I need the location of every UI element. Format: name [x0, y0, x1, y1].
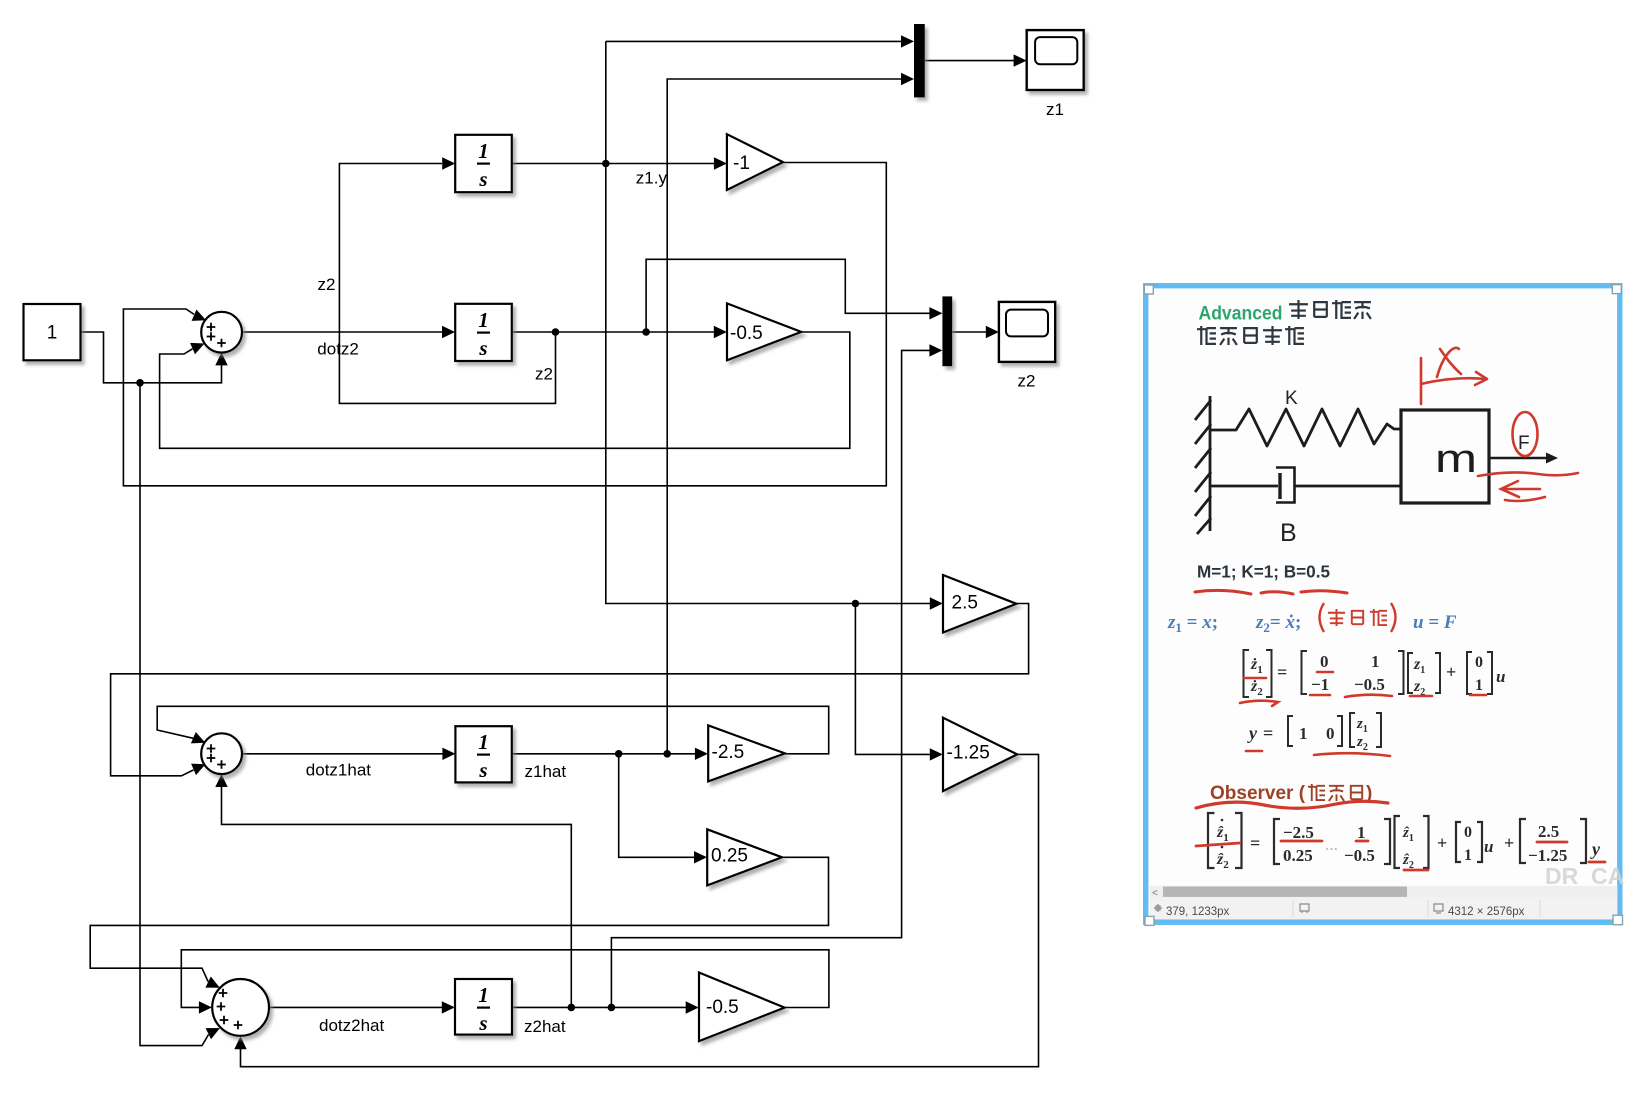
wire gain 2.5 out to sum2 lower-left	[111, 604, 1029, 776]
arrow into sum1 lower-left	[190, 338, 207, 354]
svg-text:−0.5: −0.5	[1354, 675, 1385, 694]
panel blue frame	[1143, 283, 1623, 925]
svg-text:dotz2: dotz2	[317, 339, 359, 358]
arrow into sum3 lower-left	[206, 1022, 223, 1039]
status bar	[1150, 898, 1618, 919]
obs B vector	[1456, 822, 1482, 862]
junction dot u	[136, 379, 144, 387]
junction dot z2 a	[552, 328, 560, 336]
gain -1.25	[943, 718, 1017, 791]
wire y to gain -1.25	[855, 604, 935, 755]
svg-text:z1.y: z1.y	[636, 169, 668, 188]
obs left vector	[1208, 813, 1242, 868]
mass block m	[1401, 410, 1489, 503]
svg-text:+: +	[1446, 662, 1456, 682]
arrow into gain -0.5	[714, 326, 727, 338]
obs red marks	[1196, 841, 1605, 870]
arrow into scope z2	[986, 326, 999, 338]
svg-text:u = F: u = F	[1413, 612, 1457, 633]
svg-text:y: y	[1590, 839, 1601, 859]
wire gain -1 feedback to sum1 upper-left	[123, 163, 886, 486]
svg-text:z2hat: z2hat	[524, 1017, 566, 1036]
eq1 left vector	[1244, 650, 1272, 697]
blue state definitions line	[1167, 612, 1457, 635]
svg-text:<: <	[1152, 888, 1158, 899]
svg-text:1: 1	[1357, 823, 1366, 842]
arrow into sum1 upper-left	[192, 310, 209, 326]
red x squiggle	[1437, 348, 1459, 377]
svg-text:-0.5: -0.5	[706, 997, 739, 1018]
wire z2hat to mux2 lower	[611, 350, 935, 1007]
wire integrator1 out to gain -1	[512, 163, 719, 165]
arrow into sum2 upper-left	[191, 732, 208, 748]
svg-text:1: 1	[1299, 724, 1308, 743]
svg-text:−0.5: −0.5	[1344, 846, 1375, 865]
wire sum1 to integrator2	[242, 331, 448, 333]
arrow into mux1 upper	[901, 35, 914, 47]
svg-text:s: s	[478, 1011, 487, 1035]
arrow into mux1 lower	[901, 73, 914, 85]
integrator1 1/s	[455, 135, 512, 192]
arrow into gain -1.25	[930, 748, 943, 760]
wire mux1 to scope z1	[925, 60, 1019, 62]
wire sum3 to integrator4	[269, 1006, 447, 1008]
arrow into gain -1	[714, 157, 727, 169]
svg-text:0: 0	[1326, 724, 1335, 743]
svg-text:0: 0	[1475, 654, 1483, 671]
svg-text:0.25: 0.25	[1283, 846, 1313, 865]
mux1	[914, 24, 925, 97]
svg-text:M=1; K=1; B=0.5: M=1; K=1; B=0.5	[1197, 562, 1330, 582]
arrow into gain 0.25	[694, 851, 707, 863]
wire gain -0.5 feedback to sum1 lower-left	[160, 332, 850, 448]
gain -1	[727, 134, 783, 190]
red annotations on figure	[1421, 348, 1578, 501]
red underlines under M K B	[1195, 590, 1347, 594]
svg-text:z1hat: z1hat	[525, 762, 567, 781]
svg-text:1: 1	[478, 308, 489, 332]
svg-text:u: u	[1484, 837, 1493, 856]
wire sum2 to integrator3	[242, 753, 448, 755]
wire gain -2.5 feedback to sum2 upper-left	[157, 706, 829, 754]
svg-text:379, 1233px: 379, 1233px	[1166, 906, 1230, 918]
arrow into mux2 upper	[929, 307, 942, 319]
svg-text:4312 × 2576px: 4312 × 2576px	[1448, 906, 1525, 918]
junction dot z1	[602, 160, 610, 168]
svg-text:s: s	[478, 167, 487, 191]
svg-text:−1: −1	[1311, 675, 1329, 694]
sum junction sum1	[201, 312, 242, 353]
svg-text:-1: -1	[733, 153, 750, 174]
eq1 red marks	[1240, 672, 1486, 756]
svg-text:···: ···	[1325, 841, 1338, 856]
obs zhat vector	[1395, 816, 1429, 868]
wall	[1195, 396, 1211, 534]
wire u vertical to sum3 lower-left	[140, 383, 209, 1046]
wire z2 branch to integrator1	[339, 164, 555, 404]
svg-text:z2: z2	[1018, 372, 1036, 391]
wire gain -0.5b out to sum3 left	[181, 950, 829, 1008]
wire constant to sum1 bottom	[81, 332, 222, 383]
panel title hanzi line2	[1197, 326, 1304, 345]
svg-text:-0.5: -0.5	[730, 323, 763, 344]
arrow into sum3 left	[199, 1001, 212, 1013]
svg-text:z2: z2	[535, 365, 553, 384]
wire mux2 to scope z2	[952, 331, 991, 333]
svg-text:1: 1	[478, 983, 489, 1007]
svg-text:z1: z1	[1046, 100, 1064, 119]
gain 0.25	[707, 829, 782, 885]
svg-text:1: 1	[47, 323, 58, 344]
mux2	[942, 296, 952, 366]
arrow into sum1 bottom	[215, 352, 227, 365]
svg-text:=: =	[1277, 662, 1287, 682]
svg-text:F: F	[1518, 433, 1530, 454]
red (buketse) annotation	[1320, 603, 1396, 632]
svg-text:B: B	[1280, 519, 1297, 547]
gain 2.5	[943, 575, 1016, 633]
red ellipse around F	[1513, 412, 1538, 456]
wire integrator2 out to gain -0.5	[512, 331, 719, 333]
arrow into sum2 lower-left	[191, 759, 208, 775]
arrow into gain 2.5	[930, 597, 943, 609]
wire integrator3 out to gain -2.5	[512, 753, 700, 755]
arrow into sum3 upper-left	[205, 977, 222, 994]
svg-text:s: s	[478, 336, 487, 360]
obs A matrix	[1274, 819, 1390, 864]
sum junction sum3	[212, 979, 269, 1036]
arrow into mux2 lower	[929, 344, 942, 356]
scope z1	[1027, 30, 1084, 90]
eq1 z vector	[1408, 653, 1440, 693]
gain -0.5 bottom	[699, 973, 785, 1042]
junction dot y	[852, 600, 860, 608]
constant block 1	[24, 304, 81, 360]
eq1 A matrix	[1302, 651, 1404, 694]
arrow into gain -2.5	[695, 748, 708, 760]
svg-text:=: =	[1263, 723, 1273, 743]
svg-text:0.25: 0.25	[711, 846, 748, 867]
svg-text:0: 0	[1464, 824, 1472, 841]
junction dot z1hat b	[663, 750, 671, 758]
wire z2 to mux2 upper	[646, 259, 935, 332]
svg-text:z2: z2	[318, 275, 336, 294]
red measure arrow	[1420, 358, 1423, 404]
svg-text:u: u	[1496, 667, 1505, 686]
svg-text:dotz2hat: dotz2hat	[319, 1016, 384, 1035]
svg-text:s: s	[478, 758, 487, 782]
svg-text:K: K	[1285, 388, 1298, 409]
svg-text:=: =	[1250, 833, 1260, 853]
integrator2 1/s	[455, 304, 512, 361]
wire z1hat to mux1 lower	[667, 79, 906, 754]
wire gain -1.25 out to sum3 bottom	[241, 754, 1039, 1066]
red scribble under F arrow	[1478, 472, 1578, 476]
arrow into integrator2	[442, 326, 455, 338]
wire z1hat to gain 0.25	[619, 754, 699, 858]
svg-text:y: y	[1247, 723, 1258, 743]
arrow into integrator1	[442, 157, 455, 169]
svg-text:+: +	[1504, 833, 1514, 853]
svg-text:1: 1	[1371, 652, 1380, 671]
svg-text:1: 1	[478, 139, 489, 163]
spring K	[1210, 409, 1401, 446]
svg-text:+: +	[1437, 833, 1447, 853]
gain -2.5	[708, 725, 785, 781]
gain -0.5 top	[727, 303, 801, 360]
integrator4 1/s	[455, 979, 512, 1035]
arrow into gain -0.5b	[686, 1001, 699, 1013]
svg-text:Observer (: Observer (	[1210, 783, 1306, 804]
wire z2hat to sum2 bottom	[222, 779, 572, 1007]
svg-text:−2.5: −2.5	[1283, 823, 1314, 842]
selection handles	[1144, 285, 1622, 926]
eq1 B vector	[1467, 652, 1492, 694]
F arrow black	[1489, 457, 1547, 460]
scrollbar	[1150, 886, 1618, 898]
svg-text:1: 1	[1475, 677, 1483, 694]
wire z1 vertical down to gain 2.5	[606, 41, 935, 603]
junction dot z2hat a	[568, 1004, 576, 1012]
wire gain 0.25 out to sum3 upper-left	[90, 857, 828, 982]
svg-text:Advanced: Advanced	[1199, 304, 1283, 325]
obs L vector	[1520, 819, 1586, 863]
scope z2	[999, 302, 1055, 362]
svg-text:1: 1	[478, 730, 489, 754]
sum junction sum2	[201, 733, 242, 774]
svg-text:z2= ẋ;: z2= ẋ;	[1255, 612, 1301, 635]
junction dot z2 b	[642, 328, 650, 336]
wire integrator4 out to gain -0.5b	[512, 1006, 691, 1008]
damper rod and cylinder	[1210, 468, 1401, 503]
red wavy underline Observer	[1196, 801, 1388, 808]
svg-text:-1.25: -1.25	[947, 743, 990, 764]
wire z1 to mux1 upper	[606, 40, 906, 42]
arrow into sum2 bottom	[215, 774, 227, 787]
svg-text:-2.5: -2.5	[712, 742, 745, 763]
svg-text:z1 = x;: z1 = x;	[1167, 612, 1218, 635]
observer equation	[1208, 813, 1601, 871]
junction dot z2hat b	[608, 1004, 616, 1012]
svg-text:dotz1hat: dotz1hat	[306, 761, 371, 780]
junction dot z1hat a	[615, 750, 623, 758]
arrow into integrator3	[442, 748, 455, 760]
svg-text:2.5: 2.5	[952, 593, 978, 614]
arrow into scope z1	[1014, 54, 1027, 66]
arrow into sum3 bottom	[234, 1036, 246, 1049]
svg-text:DR_CA: DR_CA	[1545, 863, 1624, 889]
svg-text:0: 0	[1320, 652, 1329, 671]
integrator3 1/s	[455, 726, 511, 782]
svg-text:m: m	[1435, 437, 1477, 481]
svg-text:2.5: 2.5	[1538, 822, 1559, 841]
arrow into integrator4	[442, 1001, 455, 1013]
state equation matrices	[1244, 650, 1506, 753]
panel title hanzi line1	[1289, 300, 1371, 319]
svg-text:1: 1	[1464, 847, 1472, 864]
